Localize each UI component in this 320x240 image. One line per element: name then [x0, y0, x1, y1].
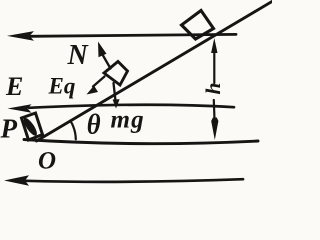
svg-text:θ: θ: [87, 109, 101, 140]
svg-text:O: O: [38, 148, 56, 175]
svg-text:P: P: [0, 114, 18, 144]
svg-text:E: E: [5, 72, 23, 101]
svg-text:mg: mg: [111, 107, 145, 134]
svg-text:Eq: Eq: [48, 74, 76, 99]
svg-text:N: N: [67, 40, 90, 71]
svg-text:h: h: [201, 83, 225, 95]
